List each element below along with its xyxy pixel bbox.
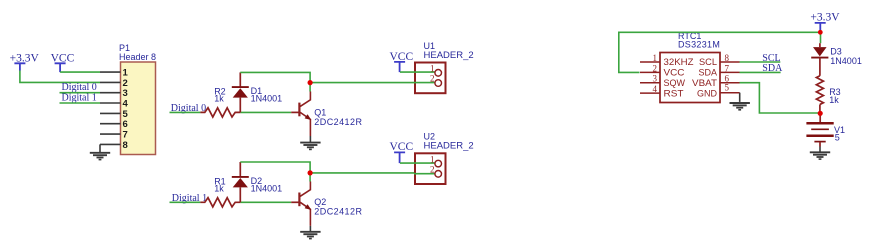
pin 3 of P1: [100, 88, 128, 99]
svg-text:VCC: VCC: [390, 141, 414, 153]
svg-text:4: 4: [653, 84, 658, 94]
svg-text:1k: 1k: [214, 93, 224, 103]
svg-text:7: 7: [725, 63, 730, 73]
ground (Q2): [300, 232, 320, 239]
resistor R3: [816, 76, 823, 105]
supply VCC (U2): [390, 141, 414, 163]
svg-text:2: 2: [430, 165, 435, 175]
battery V1: [806, 123, 833, 141]
pin 5 GND of RTC1: [697, 82, 740, 98]
svg-text:HEADER_2: HEADER_2: [424, 141, 474, 152]
svg-text:SDA: SDA: [762, 63, 783, 74]
wire VCC to U2 pin 1: [400, 162, 435, 164]
wire R3 to battery junction: [819, 105, 821, 114]
connector U2 HEADER_2 body: [415, 153, 446, 184]
wire Digital 0 to R2: [170, 111, 201, 113]
wire P1 pin 8 to ground: [99, 144, 101, 152]
connector U1 HEADER_2 body: [415, 63, 446, 94]
pin 2 of P1: [100, 78, 128, 89]
wire junction to Q1 collector: [309, 83, 311, 92]
transistor Q1: [291, 92, 311, 137]
svg-text:DS3231M: DS3231M: [678, 39, 720, 49]
supply +3.3V (right): [810, 11, 840, 30]
wire Q1 emitter to ground: [309, 136, 311, 142]
svg-text:5: 5: [835, 132, 840, 142]
pin 2 of U1: [430, 74, 442, 87]
svg-text:Digital 0: Digital 0: [62, 82, 97, 93]
ground (V1): [810, 152, 830, 159]
wire D1 cathode to collector rail: [240, 72, 310, 82]
wire +3.3V to P1 pin 2: [20, 71, 100, 83]
svg-text:1N4001: 1N4001: [251, 183, 283, 193]
svg-text:1N4001: 1N4001: [830, 56, 862, 66]
wire Q2 emitter to ground: [309, 226, 311, 232]
diode D3: [811, 43, 828, 76]
wire Digital 0 to P1 pin 3: [60, 92, 101, 94]
pin 8 of P1: [100, 140, 128, 151]
svg-text:Q2: Q2: [314, 197, 326, 207]
wire SDA from pin 7: [740, 71, 781, 73]
connector P1 Header 8 body: [121, 62, 156, 155]
pin 1 32KHZ of RTC1: [640, 53, 694, 67]
svg-text:1N4001: 1N4001: [251, 93, 283, 103]
resistor R1: [200, 198, 240, 207]
junction node Q2 collector: [308, 170, 313, 175]
wire VCC to P1 pin 1: [60, 71, 100, 73]
wire VCC to U1 pin 1: [400, 71, 435, 73]
wire battery V1 to ground: [819, 143, 821, 153]
junction node R3 / V1 / VBAT: [818, 111, 823, 116]
junction node Q1 collector: [308, 80, 313, 85]
junction node +3.3V rail / D3: [818, 30, 823, 35]
wire stub U2 pin 2 inside box: [414, 173, 435, 175]
diode D1: [232, 72, 249, 112]
svg-text:HEADER_2: HEADER_2: [424, 50, 474, 61]
diode D2: [232, 162, 249, 202]
pin 4 RST of RTC1: [640, 84, 684, 98]
wire Digital 1 to P1 pin 4: [60, 102, 101, 104]
ground (Q1): [300, 143, 320, 150]
wire pin 5 GND down: [739, 93, 741, 102]
wire stub U1 pin 2 inside box: [414, 82, 435, 84]
svg-text:2: 2: [653, 63, 658, 73]
svg-text:SQW: SQW: [664, 78, 686, 88]
ground (P1): [90, 153, 110, 160]
svg-text:VCC: VCC: [664, 68, 686, 78]
supply +3.3V (left): [10, 53, 40, 71]
svg-text:2DC2412R: 2DC2412R: [314, 207, 362, 217]
svg-text:Header 8: Header 8: [119, 52, 156, 62]
pin 5 of P1: [100, 109, 129, 120]
transistor Q2: [291, 182, 311, 226]
wire R1 to Q2 base: [240, 201, 291, 203]
svg-text:Q1: Q1: [314, 107, 326, 117]
svg-text:1: 1: [430, 63, 435, 73]
pin 2 of U2: [430, 165, 442, 178]
supply VCC (U1): [390, 51, 414, 72]
pin 6 of P1: [100, 119, 128, 130]
wire RTC pin 2 VCC to +3.3V rail: [619, 32, 821, 72]
svg-text:3: 3: [653, 74, 658, 84]
wire +3.3V to D3 anode: [820, 30, 822, 43]
pin 7 SDA of RTC1: [699, 63, 740, 77]
pin 3 SQW of RTC1: [640, 74, 686, 88]
svg-text:6: 6: [123, 119, 128, 130]
svg-text:2DC2412R: 2DC2412R: [314, 117, 362, 127]
svg-text:SCL: SCL: [699, 57, 717, 67]
wire R2 to Q1 base: [240, 111, 291, 113]
svg-text:5: 5: [725, 82, 730, 92]
pin 1 of U2: [430, 154, 442, 167]
svg-text:1k: 1k: [214, 183, 224, 193]
pin 1 of P1: [100, 68, 129, 79]
pin 6 VBAT of RTC1: [692, 74, 740, 88]
svg-text:GND: GND: [697, 88, 718, 98]
svg-text:RST: RST: [664, 88, 685, 98]
svg-text:VBAT: VBAT: [692, 78, 718, 88]
ground (RTC GND pin): [730, 103, 750, 110]
pin 2 VCC of RTC1: [640, 63, 685, 77]
pin 1 of U1: [430, 63, 442, 76]
svg-text:32KHZ: 32KHZ: [664, 57, 695, 67]
wire D2 cathode to collector rail: [240, 162, 310, 173]
svg-text:4: 4: [123, 99, 129, 110]
svg-text:SDA: SDA: [699, 68, 718, 78]
supply VCC (left): [51, 53, 75, 73]
IC RTC1 DS3231M body: [660, 53, 720, 103]
wire junction to U1 pin 2: [310, 82, 435, 84]
pin 8 SCL of RTC1: [699, 53, 740, 67]
svg-text:+3.3V: +3.3V: [810, 11, 840, 23]
svg-text:8: 8: [725, 53, 730, 63]
wire VBAT pin 6 to battery junction: [740, 83, 821, 113]
svg-text:1k: 1k: [829, 95, 839, 105]
wire Digital 1 to R1: [170, 201, 201, 203]
svg-text:Digital 1: Digital 1: [62, 92, 97, 103]
svg-text:SCL: SCL: [762, 53, 780, 64]
wire junction to U2 pin 2: [310, 172, 435, 174]
svg-text:1: 1: [430, 154, 435, 164]
pin 4 of P1: [100, 99, 129, 110]
resistor R2: [200, 108, 240, 117]
pin 7 of P1: [100, 130, 128, 141]
svg-text:2: 2: [430, 74, 435, 84]
svg-text:8: 8: [123, 140, 128, 151]
wire SCL from pin 8: [740, 61, 781, 63]
wire junction to Q2 collector: [309, 173, 311, 182]
wire junction to battery V1: [819, 113, 821, 122]
svg-text:1: 1: [653, 53, 658, 63]
